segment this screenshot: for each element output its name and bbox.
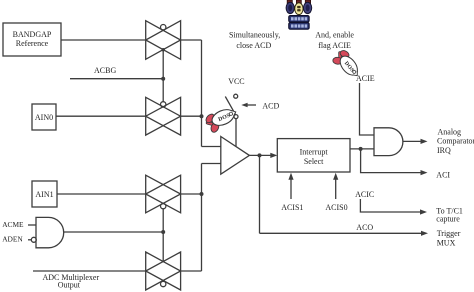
rocket icon DOS 2 (aimed at ACIE) (329, 47, 364, 83)
svg-text:AIN0: AIN0 (35, 113, 53, 122)
wire AIN1 to S3 (57, 193, 146, 195)
wire ACIE to AND gate (360, 83, 375, 135)
svg-text:Comparator: Comparator (437, 137, 474, 146)
AIN1 box (32, 181, 57, 207)
junction negative net (200, 192, 204, 196)
ACIS1 arrow (288, 173, 293, 199)
AND gate U3 (ACIE enable) (374, 128, 403, 156)
wire AIN0 to S2 (56, 115, 146, 117)
bomb 1 tail (287, 0, 292, 4)
ACBG wire (70, 78, 163, 80)
ACD arrow (241, 103, 256, 108)
svg-text:Output: Output (58, 280, 81, 289)
wire ACBG junction to switch S2 control bubble (162, 79, 164, 102)
VCC switch blade (225, 97, 235, 115)
svg-text:ACIS1: ACIS1 (281, 203, 303, 212)
analog switch S3 (AIN1 select) (146, 175, 181, 213)
junction comparator output node (258, 153, 262, 157)
svg-text:close ACD: close ACD (236, 41, 271, 50)
bomb 2 body (295, 3, 303, 15)
svg-text:Trigger: Trigger (437, 229, 461, 238)
bomb 1 body (286, 2, 294, 13)
wire positive net to comparator (202, 146, 221, 148)
svg-text:ACI: ACI (436, 171, 450, 180)
wire U1 output to mux control junction (64, 231, 164, 233)
bomb 2 tail (296, 0, 301, 4)
bomb 1 core (288, 5, 292, 12)
svg-text:ACME: ACME (2, 220, 24, 229)
ACI arrow head (421, 170, 428, 175)
ACIC wire (360, 199, 420, 212)
wire S3 output to negative net junction (181, 193, 202, 195)
svg-text:Analog: Analog (438, 127, 462, 136)
server unit 2 slots (291, 24, 307, 27)
wire S1 output to comparator positive net (181, 39, 202, 41)
IRQ arrow head (421, 139, 428, 144)
svg-text:ACIE: ACIE (356, 74, 375, 83)
wire ADC multiplexer output to S4 (33, 270, 146, 272)
analog switch S2 (AIN0 select) (146, 97, 181, 135)
wire S3 control bubble to junction to S4 (162, 209, 164, 262)
ACIS0 arrow (333, 173, 338, 199)
AND gate U1 (ACME and not-ADEN) (28, 217, 64, 247)
svg-text:And, enable: And, enable (315, 31, 354, 40)
wire U3 output (403, 140, 422, 142)
svg-text:ACIC: ACIC (355, 190, 374, 199)
wire VCC switch to comparator (235, 119, 237, 147)
junction mux control node (161, 230, 165, 234)
svg-text:ACO: ACO (356, 223, 373, 232)
svg-text:BANDGAP: BANDGAP (13, 30, 52, 39)
VCC switch terminal bottom (234, 115, 238, 119)
BANDGAP Reference box (3, 23, 61, 56)
negative input net vertical (201, 164, 203, 272)
pixel icon: bombs dropping on server (DDoS) (286, 0, 312, 29)
wire comparator output (249, 154, 271, 156)
svg-text:Simultaneously,: Simultaneously, (229, 31, 280, 40)
junction ACBG node (161, 77, 165, 81)
ACO arrow head (421, 231, 428, 236)
svg-text:Select: Select (304, 157, 324, 166)
wire interrupt select output (350, 148, 374, 150)
svg-text:capture: capture (436, 214, 460, 223)
analog switch S1 (bandgap select) (146, 21, 181, 60)
wire ACO branch vertical (259, 155, 261, 233)
server unit 1 (289, 16, 309, 22)
ACIC arrow head (420, 209, 427, 214)
svg-text:MUX: MUX (437, 238, 456, 247)
wire S2 output to positive net junction (181, 115, 202, 117)
bomb 3 tail (305, 0, 310, 4)
bomb 3 core (306, 5, 310, 12)
svg-text:AIN1: AIN1 (35, 190, 53, 199)
svg-text:ADEN: ADEN (2, 235, 23, 244)
svg-text:IRQ: IRQ (437, 146, 451, 155)
analog switch S4 (ADC mux select) (146, 252, 181, 290)
wire S1 control down to ACBG junction (162, 50, 164, 79)
wire BANDGAP to switch S1 (61, 39, 146, 41)
ACO wire (260, 232, 422, 234)
positive input net vertical (201, 40, 203, 147)
server unit 1 slots (291, 17, 307, 20)
server unit 2 (289, 23, 309, 30)
svg-text:VCC: VCC (228, 77, 244, 86)
Interrupt Select box (277, 139, 350, 172)
junction ACI node (359, 147, 363, 151)
svg-text:ACIS0: ACIS0 (325, 203, 347, 212)
wire negative net to comparator (202, 163, 221, 165)
arrow into interrupt select (270, 153, 277, 158)
svg-text:Interrupt: Interrupt (300, 147, 329, 156)
bomb 2 core (297, 6, 300, 8)
wire ACI branch (361, 149, 422, 173)
svg-text:Reference: Reference (16, 39, 49, 48)
junction positive net (200, 114, 204, 118)
VCC switch terminal top (234, 94, 238, 98)
AIN0 box (32, 104, 56, 130)
svg-text:ACBG: ACBG (94, 66, 116, 75)
wire S4 output to negative net (181, 270, 202, 272)
comparator U2 (221, 137, 250, 175)
svg-text:flag ACIE: flag ACIE (318, 41, 351, 50)
svg-text:ACD: ACD (262, 102, 279, 111)
bomb 3 body (304, 2, 312, 13)
rocket icon DOS 1 (aimed at ACD switch) (203, 104, 241, 136)
